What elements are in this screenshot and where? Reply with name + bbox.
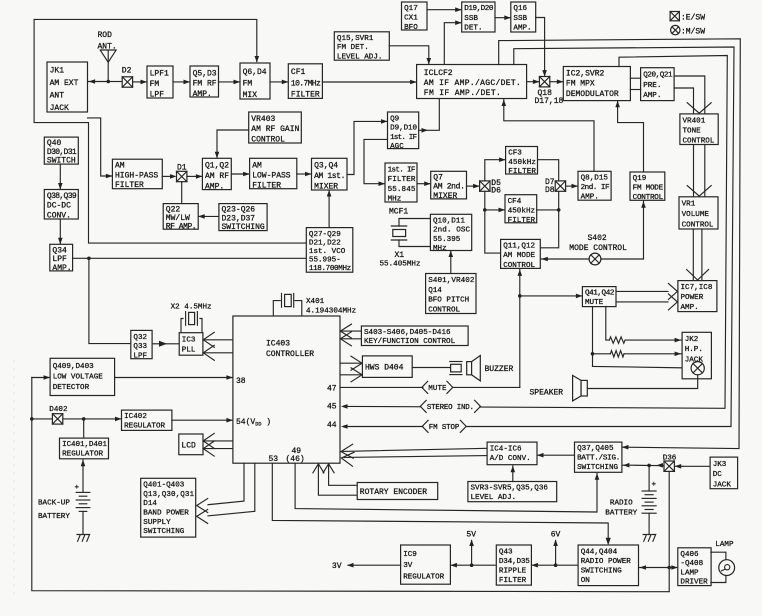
block JK2 H.P. JACK [682,332,711,379]
svg-text:55.995-: 55.995- [309,257,341,265]
svg-text:Q11,Q12: Q11,Q12 [503,243,535,251]
wire Q9 to 1st IF filter [364,139,388,183]
backup battery cells [76,492,90,511]
block S403-S406 KEY/FUNCTION CONTROL [361,326,468,346]
svg-text:Q5,D3: Q5,D3 [193,69,217,78]
arrowhead into Q18 top [542,70,547,77]
svg-text:LAMP: LAMP [680,569,699,577]
svg-text:FILTER: FILTER [115,181,144,190]
arrowhead into JK2 upper [675,338,682,343]
block ICLCF2 AM/FM IF amp det [417,65,527,99]
svg-text:LCD: LCD [181,442,196,451]
svg-text:Q10,D11: Q10,D11 [433,218,465,226]
block Q23-Q26 D23,D37 SWITCHING [219,204,267,233]
svg-text:1st. IF: 1st. IF [388,167,416,175]
wire Q15,SVR1 to ICLCF2 top [389,46,429,64]
svg-text:Q44,Q404: Q44,Q404 [581,548,618,556]
junction 6V [554,563,558,567]
block Q38,Q39 DC-DC CONV [44,190,78,221]
diode switch D5,D6 [480,181,490,191]
wire D5,D6 up to CF3 [485,160,505,181]
svg-text:IC7,IC8: IC7,IC8 [681,284,713,292]
block IC403 CONTROLLER [233,316,340,463]
wire MUTE line from pin 47 [340,386,520,388]
svg-text:VR401: VR401 [683,117,706,125]
wire controller to LCD upper [203,440,233,442]
svg-text:47: 47 [327,385,337,394]
svg-text:AM MODE: AM MODE [503,252,535,260]
arrowhead into Q19 bottom [641,201,646,208]
block VR401 TONE CONTROL [680,114,718,145]
svg-text:Q1,Q2: Q1,Q2 [205,162,229,171]
svg-text:Q9: Q9 [390,115,400,123]
wire CF4 to D7,D8 [537,191,559,210]
block Q1,Q2 AM RF AMP [202,158,231,191]
svg-text:AM RF GAIN: AM RF GAIN [251,125,299,134]
big arrowhead A/D lower [341,452,354,466]
arrowhead into pin 54 [226,418,233,423]
wire Q5,D3 to Q6,D4 [219,81,240,83]
svg-text:Q40: Q40 [47,139,62,148]
wire CF1 to ICLCF2 [322,81,415,83]
wire JK2 to speaker [587,375,697,389]
svg-text:JK2: JK2 [685,336,699,344]
arrowhead into Q11,Q12 bottom [518,269,523,276]
arrowhead 3V [347,563,354,568]
diode switch D1 [177,171,187,181]
svg-text:LPF: LPF [150,91,165,100]
wire junction down to Q11,Q12 right [540,210,558,248]
svg-text:3V: 3V [332,562,342,571]
svg-text:FM STOP: FM STOP [429,424,460,432]
wire controller to HWS upper [340,362,361,364]
svg-text:LEVEL ADJ.: LEVEL ADJ. [337,53,383,61]
block D19,D20 SSB DET [462,2,495,32]
svg-text:Q14: Q14 [428,287,442,295]
svg-text:AMP.: AMP. [193,90,212,99]
block SVR3-SVR5 LEVEL ADJ [468,482,557,502]
arrowhead on Q9 output [422,128,429,133]
wire ICLCF2 FM STOP wrap [345,47,734,427]
diode D402 [52,414,62,424]
big arrowhead into IC7 lower [668,294,677,310]
wire VR403 to Q1,Q2 top [217,130,249,157]
arrowhead into AM HPF [106,174,113,179]
block Q409,D403 LOW VOLTAGE DETECTOR [50,358,115,395]
svg-text:IC403: IC403 [266,339,290,348]
svg-text:ROD: ROD [98,31,113,40]
wire junction down to IC401 [83,419,85,438]
svg-text:A/D CONV.: A/D CONV. [490,455,531,463]
wire Q20 to VR401 left [674,88,693,113]
svg-text:MIXER: MIXER [433,192,457,201]
svg-text:MUTE: MUTE [585,299,604,307]
svg-text:CONTROL: CONTROL [428,306,460,314]
block IC402 REGULATOR [122,410,172,430]
arrowhead into JK1 right edge [89,79,96,84]
block Q8,D15 2nd IF AMP [578,171,611,201]
svg-text:10.7MHz: 10.7MHz [291,79,321,88]
arrowhead into ICLCF2 top [427,58,432,65]
wire arrow segment 2 [675,465,683,467]
junction antenna/wire [107,80,111,84]
wire Q41 to IC7 lower [616,301,668,303]
block IC7,IC8 POWER AMP [678,281,717,313]
svg-text:DRIVER: DRIVER [680,579,708,587]
wire Q3,Q4 to Q9 [347,121,387,174]
svg-text:RF AMP.: RF AMP. [166,223,197,232]
svg-text:FM MPX: FM MPX [566,80,595,89]
arrowhead into Q1,Q2 [196,174,203,179]
svg-text:DEMODULATOR: DEMODULATOR [566,90,619,99]
svg-text:MUTE: MUTE [428,385,447,393]
svg-text:S401,VR402: S401,VR402 [428,277,475,285]
arrowhead after D36 toward Q37 [657,463,664,468]
svg-text:IC3: IC3 [182,337,196,345]
wire JK3 to D36 [683,465,709,467]
svg-text:45: 45 [327,403,337,412]
block LCD display [179,434,203,455]
svg-text:118.700MHz: 118.700MHz [309,265,351,273]
block Q32,Q33 LPF [131,330,152,360]
junction 5V [470,563,474,567]
wire keys to controller upper [341,330,361,332]
block AM HIGH-PASS FILTER [112,159,162,190]
svg-text:450kHz: 450kHz [508,207,535,215]
wire Q37 to A/D [538,454,575,456]
svg-text:Q41,Q42: Q41,Q42 [585,289,615,297]
svg-text:DC: DC [713,471,723,479]
big arrowhead into HWS upper [351,356,362,370]
radio battery cells [642,491,656,513]
arrowhead into Q9 left [381,119,388,124]
resistor headphone lower [610,351,624,357]
wire 1st IF filter to Q7 [417,183,430,185]
wire arrow to IC3 [167,343,179,345]
svg-text:Q23-Q26: Q23-Q26 [222,206,256,215]
svg-text:D6: D6 [491,187,501,196]
svg-text:FILTER: FILTER [388,176,416,184]
svg-text:+: + [75,484,80,492]
block Q20,Q21 PRE AMP [641,68,675,101]
arrowhead into Q10,D11 bottom [449,251,454,258]
svg-text:JACK: JACK [713,482,732,490]
net flag FM STOP [422,420,466,433]
wire Q38,Q39 to Q34 [59,219,61,243]
svg-text:IC402: IC402 [124,413,147,421]
block Q15,SVR1 FM DET LEVEL ADJ [334,32,389,62]
svg-text:55.395: 55.395 [433,236,461,244]
svg-text:FILTER: FILTER [252,182,281,191]
net flag MUTE [422,381,453,394]
block JK1 AM EXT ANT JACK [47,62,88,113]
svg-text:Q406: Q406 [680,551,699,559]
svg-text:BUZZER: BUZZER [485,365,514,374]
svg-text:Q19: Q19 [633,175,647,183]
arrowhead into D19,D20 [455,7,462,12]
svg-text:CONTROLLER: CONTROLLER [266,350,314,359]
svg-text:IC4-IC6: IC4-IC6 [490,445,522,453]
block Q44,Q404 RADIO POWER SWITCHING ON [578,545,638,586]
svg-text:6V: 6V [551,530,561,539]
svg-text:S403-S406,D405-D416: S403-S406,D405-D416 [364,329,451,337]
arrowhead into A/D right [537,453,544,458]
svg-text:CONTROL: CONTROL [683,137,715,145]
switch S402 [589,253,601,265]
arrowhead into JK2 lower [675,352,682,357]
wire rotary encoder to controller B [318,465,356,496]
arrowhead 6V up [553,540,558,547]
wire pin line to Q401 lower [208,463,255,516]
wire IC2 to Q19 link [618,101,644,171]
wire SVR3 to A/D [512,466,514,482]
svg-text:FM MODE: FM MODE [633,185,664,193]
svg-text:1st. IF: 1st. IF [390,134,417,142]
svg-text:Q13,Q30,Q31: Q13,Q30,Q31 [143,491,194,499]
arrowhead into D36 (from JK3) [675,464,682,469]
svg-text:SSB: SSB [464,15,478,23]
arrowhead FM STOP into pin 44 [341,424,348,429]
svg-text:LPF1: LPF1 [150,70,169,79]
arrowhead into AM LPF [243,172,250,177]
arrowhead into Q409 [44,375,51,380]
svg-text::M/SW: :M/SW [681,28,705,37]
net flag STEREO IND. [420,400,480,413]
wire Q41 down leg right [606,307,610,341]
svg-text:CONV.: CONV. [47,211,71,220]
svg-text::E/SW: :E/SW [681,14,705,23]
big arrowhead into VR1 [687,186,711,197]
arrowhead into Q11,Q12 right [541,257,548,262]
svg-text:54(VDD ): 54(VDD ) [236,418,271,428]
svg-text:BAND POWER: BAND POWER [143,510,189,518]
svg-text:ANT: ANT [50,91,65,100]
block Q37,Q405 BATT/SIG SWITCHING [575,442,622,472]
svg-text:55.845: 55.845 [388,186,416,194]
svg-text:Q6,D4: Q6,D4 [243,68,267,77]
svg-text:D30,D31: D30,D31 [47,148,77,157]
junction D402/IC401 [82,417,86,421]
svg-text:FM DET.: FM DET. [337,44,369,52]
svg-text:AM EXT: AM EXT [50,79,79,88]
wire backup battery to ground [82,511,84,533]
svg-text:RADIO POWER: RADIO POWER [581,558,632,566]
arrowhead into Q38,Q39 top [58,183,63,190]
wire IC2 to Q20 lower [630,89,640,91]
block Q9 D9,D10 1st IF AGC [388,112,419,151]
wire battery to ground [648,513,650,533]
block IC9 3V REGULATOR [401,545,451,584]
arrowhead into IC9 right [450,563,457,568]
svg-text:TONE: TONE [683,127,702,135]
svg-text:Q32: Q32 [133,334,147,342]
svg-text:FILTER: FILTER [508,217,536,225]
svg-text:FM: FM [243,80,253,89]
wire ICLCF2 to SSB det [444,23,460,65]
svg-text:REGULATOR: REGULATOR [403,573,444,581]
svg-text:AGC: AGC [390,143,404,151]
wire Q43 to IC9 [451,564,495,566]
block IC4-IC6 A/D CONV [487,442,537,465]
svg-text:RIPPLE: RIPPLE [499,568,527,576]
svg-text:DETECTOR: DETECTOR [53,384,90,392]
svg-text:AMP.: AMP. [52,264,71,273]
arrowhead into D5,D6 [473,184,480,189]
junction left leg / resistor 2 [591,352,595,356]
block VR403 AM RF GAIN CONTROL [249,112,302,144]
wire Q32 to IC3 PLL [152,343,166,345]
big arrowhead into Q401 lower [197,509,208,523]
svg-text:SWITCHING: SWITCHING [222,223,265,232]
junction Q34 line / PLL branch [87,257,91,261]
block Q17 CX1 BFO [402,2,428,32]
arrowhead into Q16 [504,15,511,20]
svg-text:1st. VCO: 1st. VCO [309,248,346,256]
block Q43 D34,D35 RIPPLE FILTER [496,545,531,585]
block Q34 LPF AMP [50,244,73,273]
svg-text:HWS D404: HWS D404 [365,364,404,373]
svg-text:3V: 3V [403,562,413,570]
block Q41,Q42 MUTE [582,287,616,307]
crystal X1 symbol [391,219,430,247]
svg-text:BACK-UP: BACK-UP [38,499,70,507]
big arrowhead into LCD lower [203,441,214,456]
wire CF3 to D7,D8 [538,160,559,181]
svg-text:LPF: LPF [52,255,67,264]
svg-text:Q15,SVR1: Q15,SVR1 [337,35,374,43]
block IC3 PLL [179,333,203,356]
svg-text:PLL: PLL [182,347,196,355]
buzzer horn symbol [467,356,481,381]
arrowhead into IC402 [115,417,122,422]
svg-text:MHz: MHz [388,195,402,203]
arrowhead into Q34 top [58,238,63,245]
big arrowhead into Q401 upper [197,499,208,513]
wire IC2 STEREO IND wrap [345,56,727,409]
svg-text:MCF1: MCF1 [389,208,408,217]
svg-text:FM IF AMP./DET.: FM IF AMP./DET. [424,89,501,98]
wire D36 down to power rail [668,471,670,591]
block IC2,SVR2 FM MPX DEMODULATOR [563,67,630,101]
junction lamp feed [667,566,671,570]
svg-text:LOW VOLTAGE: LOW VOLTAGE [53,374,104,382]
legend E/SW symbol [670,12,679,21]
arrowhead into Q7 [424,181,431,186]
svg-text:Q401-Q403: Q401-Q403 [143,482,184,490]
svg-text:LEVEL ADJ.: LEVEL ADJ. [471,494,517,502]
svg-text:ON: ON [581,577,590,585]
big arrowhead into IC3 lower [203,345,214,360]
arrowhead into ICLCF2 bottom [502,100,507,107]
svg-text:IC2,SVR2: IC2,SVR2 [566,70,605,79]
svg-text:44: 44 [327,421,337,430]
diode switch Q18 D17,D18 [539,77,549,87]
svg-text:Q7: Q7 [433,173,443,182]
wire Q40 to Q38,Q39 [59,164,61,188]
wire Q1,Q2 to AM LPF [231,173,248,175]
arrowhead into D1 [170,174,177,179]
arrowhead into Q406 left [671,565,678,570]
svg-text:SWITCHING: SWITCHING [577,464,618,472]
svg-text:SWITCHING: SWITCHING [581,568,622,576]
wire backup battery to IC401 [82,460,84,492]
wire VCO-to-FM-mixer loop (left/top) [34,19,306,243]
svg-text:FILTER: FILTER [499,577,527,585]
svg-text:LPF: LPF [133,352,147,360]
arrowhead 5V up [469,540,474,547]
big arrowhead keys upper into controller [340,324,351,338]
svg-text:STEREO IND.: STEREO IND. [427,404,474,412]
diode switch D7,D8 [555,181,565,191]
wire Q8,D15 to ICLCF2 bottom [504,100,594,172]
svg-text:DC-DC: DC-DC [47,202,71,211]
svg-text:BATTERY: BATTERY [605,510,637,518]
svg-text:+: + [652,481,657,489]
wire Q23-Q26 to Q22 [199,215,219,217]
svg-text:Q37,Q405: Q37,Q405 [577,445,614,453]
diode switch D2 [122,77,132,87]
svg-text:AM: AM [115,162,125,171]
svg-text:D21,D22: D21,D22 [309,239,341,247]
resistor headphone upper [609,337,625,343]
svg-text:CONTROL: CONTROL [251,135,285,144]
wire VR1 to IC7 right [701,229,703,280]
buzzer piezo symbol [450,362,462,375]
svg-text:AM 1st.: AM 1st. [314,172,345,181]
wire battery top lead [648,465,650,491]
wire 5V stub [471,541,473,566]
wire VR401 to VR1 left [693,145,695,196]
wire left leg to JK2 switch [593,366,692,368]
crystal X401 symbol [273,293,302,316]
svg-text:X401: X401 [306,298,325,306]
arrowhead into CF3 [499,157,506,162]
arrowhead rotary A into controller [323,464,334,473]
svg-text:CX1: CX1 [404,15,418,23]
lamp symbol [719,560,735,576]
wire junction to resistor 2 [593,353,611,355]
arrowhead into D19,D20 lower [455,20,462,25]
svg-text:SWITCH: SWITCH [47,157,76,166]
svg-text:Q43: Q43 [499,548,513,556]
svg-text:JK1: JK1 [50,66,65,75]
wire resistor to JK2 upper [625,339,681,341]
crystal X2 symbol [181,312,202,333]
svg-text:BATT./SIG.: BATT./SIG. [577,455,620,463]
block HWS D404 buzzer driver [362,356,412,378]
wire Q16 down to Q18 [536,18,545,76]
wire junction down to Q32 LPF [89,258,130,343]
wire ICLCF2 to Q37 (S-meter, outer wrap) [499,39,741,449]
svg-text:D14: D14 [143,500,157,508]
svg-text:FM: FM [150,80,160,89]
wire keys to controller lower [341,338,361,340]
block CF4 450kHz FILTER [505,195,537,225]
wire ICLCF2 to Q18 [527,81,539,83]
ground radio battery [643,535,656,542]
svg-text:FILTER: FILTER [291,91,320,100]
wire D402 to IC402 [63,418,121,420]
wire HWS to buzzer [412,367,450,369]
wire rail to D402 [32,418,53,420]
wire controller to HWS lower [340,374,361,376]
svg-text:POWER: POWER [681,294,704,302]
junction CF4 / AM mode line right [557,208,561,212]
svg-text:BATTERY: BATTERY [38,513,70,521]
block Q401-Q403 BAND POWER SUPPLY SWITCHING [141,478,196,537]
svg-text:MIXER: MIXER [314,183,338,192]
arrowhead into IC3 PLL [159,341,167,347]
